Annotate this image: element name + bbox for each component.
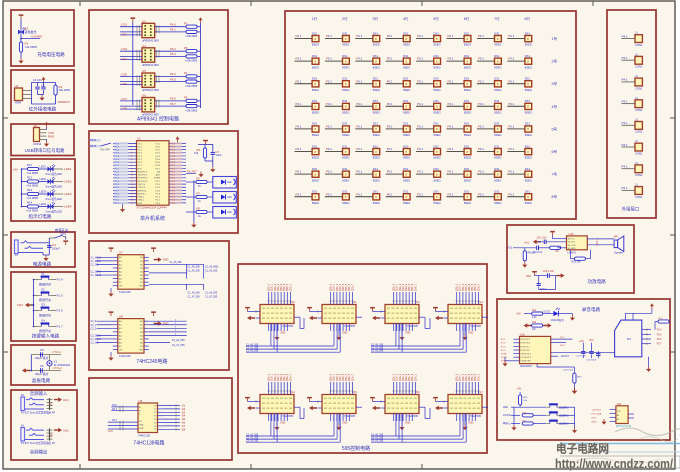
- svg-text:74HC595: 74HC595: [470, 324, 482, 328]
- svg-text:C2_1: C2_1: [91, 324, 97, 327]
- svg-text:74HC595: 74HC595: [282, 414, 294, 418]
- mid vertical wire to gnd: [572, 380, 577, 394]
- svg-text:Q3A_3: Q3A_3: [465, 283, 468, 291]
- svg-text:P1.2: P1.2: [115, 175, 120, 177]
- box M1 AP89341 control: [89, 10, 228, 124]
- input row 1: [525, 236, 567, 244]
- svg-text:Q0A_0: Q0A_0: [330, 283, 333, 291]
- IC U6 AP89341: [142, 94, 159, 117]
- svg-text:-XTAL2: -XTAL2: [52, 366, 62, 370]
- svg-text:OUT+: OUT+: [596, 238, 599, 245]
- connector pins: [23, 90, 32, 92]
- serial link wire: [294, 407, 304, 418]
- box G record circuit: [497, 299, 670, 440]
- svg-text:P2.0: P2.0: [112, 404, 118, 407]
- arrow left: [435, 406, 443, 411]
- top supply row with diode: [516, 308, 575, 322]
- IC U14 74HC595: [260, 390, 295, 418]
- svg-text:P2.7: P2.7: [156, 181, 161, 183]
- svg-text:R14: R14: [27, 201, 33, 205]
- svg-text:P2.3: P2.3: [156, 193, 161, 195]
- ground: [18, 58, 23, 64]
- LED cell row4 col3: [355, 99, 380, 114]
- VCC bar: [550, 231, 555, 236]
- svg-text:CON4: CON4: [33, 142, 42, 146]
- VCC left: [370, 307, 375, 312]
- svg-text:Q5A_5: Q5A_5: [283, 283, 286, 291]
- svg-text:SP1: SP1: [614, 236, 619, 239]
- svg-text:C13 0.1uF: C13 0.1uF: [563, 370, 574, 372]
- port cell 3: [622, 74, 643, 90]
- svg-text:C1_A7_595: C1_A7_595: [205, 295, 218, 298]
- vertical wire: [49, 355, 51, 361]
- ground below: [462, 425, 467, 431]
- svg-text:R7: R7: [184, 71, 188, 75]
- svg-text:-CS8: -CS8: [121, 107, 128, 111]
- svg-text:S2: S2: [41, 288, 45, 292]
- node CHARG: [21, 38, 40, 40]
- pin stubs below: [394, 414, 413, 422]
- LED cell row3 col4: [386, 77, 411, 92]
- svg-text:Q7A_7: Q7A_7: [414, 283, 417, 291]
- box R1 LED array: [285, 11, 576, 219]
- LED cell row3 col8: [507, 77, 532, 92]
- svg-text:Q3A_3: Q3A_3: [277, 283, 280, 291]
- svg-text:GND: GND: [280, 422, 286, 425]
- svg-text:RST: RST: [138, 168, 143, 170]
- port cell 7: [622, 161, 643, 177]
- svg-text:单片机系统: 单片机系统: [140, 215, 165, 222]
- output serial wire right: [356, 316, 362, 318]
- LED cell row8 col6: [447, 190, 472, 205]
- svg-text:DIR: DIR: [139, 350, 143, 352]
- svg-text:74HC245电路: 74HC245电路: [136, 358, 167, 365]
- arrow left: [309, 406, 317, 411]
- svg-text:G2B: G2B: [139, 428, 144, 430]
- IC U4 AP89341: [142, 44, 159, 67]
- bottom bus wires: [246, 414, 340, 443]
- svg-text:P5.7: P5.7: [657, 344, 662, 346]
- svg-text:P0.0: P0.0: [171, 168, 176, 170]
- U8 right wires: [149, 319, 187, 347]
- svg-text:30pF 瓷片: 30pF 瓷片: [35, 355, 49, 360]
- serial link wire: [419, 317, 430, 328]
- bias resistor to ground: [522, 248, 536, 268]
- svg-text:R8 10k: R8 10k: [528, 253, 536, 255]
- svg-text:C1 104: C1 104: [33, 78, 42, 82]
- svg-text:PU4 PD1: PU4 PD1: [521, 350, 531, 352]
- svg-text:4行: 4行: [403, 16, 409, 21]
- svg-text:Q0A_0: Q0A_0: [456, 373, 459, 381]
- svg-text:+5V: +5V: [516, 313, 521, 316]
- output serial wire right: [356, 406, 362, 408]
- box L3 USB serial: [11, 124, 74, 156]
- VCC arrow: [46, 128, 48, 130]
- right wires with resistors: [155, 46, 201, 63]
- U7 right nets upper: [149, 264, 219, 278]
- svg-text:AU1: AU1: [525, 241, 530, 244]
- VCC right of IC: [176, 136, 180, 142]
- svg-text:Q4A_4: Q4A_4: [280, 373, 283, 381]
- svg-text:LED4: LED4: [40, 202, 47, 206]
- LED cell row8 col1: [295, 190, 320, 205]
- svg-text:P2.1: P2.1: [112, 408, 118, 411]
- svg-text:5号: 5号: [552, 126, 558, 131]
- svg-text:P5.4: P5.4: [657, 330, 662, 332]
- svg-text:C2_A1_595: C2_A1_595: [371, 346, 384, 349]
- top wire: [31, 354, 61, 356]
- svg-text:Q7A_7: Q7A_7: [351, 373, 354, 381]
- pullup resistor right: [655, 318, 669, 330]
- LED cell row8 col2: [325, 190, 350, 205]
- ground below: [399, 425, 404, 431]
- svg-text:Q5A_5: Q5A_5: [345, 373, 348, 381]
- svg-text:Q4A_4: Q4A_4: [342, 283, 345, 291]
- svg-text:Q0A_0: Q0A_0: [393, 373, 396, 381]
- svg-text:J5: J5: [21, 393, 24, 397]
- wires U19 right: [551, 337, 609, 358]
- wire: [20, 35, 22, 42]
- svg-text:Q2A_2: Q2A_2: [462, 373, 465, 381]
- pin stubs below: [269, 324, 288, 332]
- ground: [46, 139, 48, 141]
- svg-text:2行: 2行: [342, 16, 348, 21]
- VCC right: [199, 17, 203, 23]
- LED cell row3 col1: [295, 77, 320, 92]
- svg-text:Q2A_2: Q2A_2: [399, 283, 402, 291]
- svg-text:C1_A5_8801: C1_A5_8801: [205, 266, 219, 269]
- svg-text:Q6A_6: Q6A_6: [286, 373, 289, 381]
- svg-text:U5: U5: [142, 69, 146, 73]
- svg-text:P5.2: P5.2: [501, 343, 506, 345]
- svg-text:Q1A_1: Q1A_1: [333, 283, 336, 291]
- svg-text:C1_SDA1: C1_SDA1: [91, 271, 102, 274]
- svg-text:U10: U10: [290, 300, 295, 304]
- VCC left: [433, 307, 438, 312]
- pins: [40, 129, 47, 131]
- VCC: [63, 240, 68, 245]
- svg-text:Q4A_4: Q4A_4: [342, 373, 345, 381]
- svg-text:P1.3: P1.3: [138, 153, 143, 155]
- svg-text:Q4A_4: Q4A_4: [280, 283, 283, 291]
- LED cell row6 col1: [295, 144, 320, 159]
- U8 left wires: [91, 320, 113, 344]
- LED cell row2 col1: [295, 54, 320, 69]
- svg-text:USB转串口信号电路: USB转串口信号电路: [25, 147, 65, 154]
- svg-text:按键输入电路: 按键输入电路: [32, 333, 60, 340]
- svg-text:-LED1: -LED1: [64, 167, 72, 171]
- left connection: [30, 355, 32, 371]
- svg-text:10uF: 10uF: [216, 153, 222, 157]
- svg-text:P0.4: P0.4: [171, 156, 176, 158]
- svg-text:1号: 1号: [552, 36, 558, 41]
- arrow left: [372, 406, 380, 411]
- svg-text:5mm蓝色LED: 5mm蓝色LED: [46, 197, 63, 201]
- svg-text:-CS7: -CS7: [121, 97, 128, 101]
- svg-text:C1_A1_595: C1_A1_595: [246, 346, 259, 349]
- capacitor C4: [48, 243, 50, 255]
- pin stubs below: [457, 324, 476, 332]
- svg-text:U3: U3: [142, 19, 146, 23]
- LED cell row5 col5: [416, 122, 441, 137]
- svg-text:C1_RCLK: C1_RCLK: [91, 260, 102, 263]
- MCU pin rows right: [154, 142, 186, 205]
- svg-text:74HC595: 74HC595: [344, 324, 356, 328]
- VCC U8 left: [109, 311, 114, 316]
- svg-text:BYP V+: BYP V+: [568, 238, 576, 240]
- svg-text:-CS2: -CS2: [121, 32, 128, 36]
- box L2 IR receiver: [11, 70, 74, 113]
- svg-text:P5.0: P5.0: [501, 350, 506, 352]
- U9 lower left wires: [108, 419, 138, 433]
- VCC left: [130, 17, 135, 22]
- svg-text:P0.7: P0.7: [171, 165, 176, 167]
- svg-text:C1_A6_595: C1_A6_595: [205, 292, 218, 295]
- svg-text:P5.3: P5.3: [501, 346, 506, 348]
- svg-text:C2_A2_595: C2_A2_595: [371, 350, 384, 353]
- svg-text:C1_A5_595: C1_A5_595: [188, 266, 201, 269]
- svg-text:功放电路: 功放电路: [588, 278, 607, 285]
- svg-text:Q1A_1: Q1A_1: [396, 373, 399, 381]
- LED cell row7 col5: [416, 167, 441, 182]
- svg-text:=1k 0805: =1k 0805: [27, 184, 39, 188]
- left wires: [120, 72, 142, 86]
- LED cell row8 col7: [477, 190, 502, 205]
- svg-text:指示灯电路: 指示灯电路: [29, 213, 52, 220]
- vertical wires to labels: [268, 283, 293, 304]
- mic module VCC arrow: [625, 303, 653, 313]
- svg-text:P1.0: P1.0: [115, 168, 120, 170]
- svg-text:C2_2: C2_2: [91, 327, 97, 330]
- svg-text:uP89341 809: uP89341 809: [142, 39, 159, 43]
- IC U9 74HC138: [138, 399, 163, 438]
- ground left of U19: [502, 357, 513, 366]
- svg-text:-REC: -REC: [503, 407, 509, 409]
- box M3 74HC245: [89, 241, 229, 370]
- svg-text:U19: U19: [520, 332, 525, 336]
- svg-text:C10 0.1uF: C10 0.1uF: [543, 270, 555, 273]
- svg-text:74HC245: 74HC245: [119, 290, 131, 294]
- svg-text:U12: U12: [415, 300, 420, 304]
- LED cell row7 col2: [325, 167, 350, 182]
- svg-text:VCC: VCC: [155, 143, 160, 145]
- svg-text:C2_RCLK: C2_RCLK: [91, 338, 102, 341]
- svg-text:P1.5: P1.5: [138, 159, 143, 161]
- svg-text:Speaker: Speaker: [614, 252, 623, 255]
- svg-text:74HC595: 74HC595: [407, 414, 419, 418]
- svg-text:TXD/P3.1: TXD/P3.1: [138, 175, 148, 177]
- LED cell row6 col8: [507, 144, 532, 159]
- svg-text:晶振电路: 晶振电路: [32, 377, 51, 384]
- net label P4RST: [186, 169, 204, 177]
- bottom bus wires: [371, 414, 466, 443]
- svg-text:LED2: LED2: [40, 177, 47, 181]
- svg-text:5mm蓝色LED: 5mm蓝色LED: [46, 210, 63, 214]
- svg-text:AP89341 控制电路: AP89341 控制电路: [137, 116, 179, 123]
- svg-text:P1.7: P1.7: [115, 165, 120, 167]
- LED cell row1 col3: [355, 31, 380, 46]
- button S1: [33, 272, 63, 287]
- LED cell row2 col3: [355, 54, 380, 69]
- IC U15 74HC595: [322, 390, 357, 418]
- svg-text:P0.3: P0.3: [171, 178, 176, 180]
- LED cell row1 col4: [386, 31, 411, 46]
- svg-text:8号: 8号: [552, 194, 558, 199]
- vertical wires to labels: [330, 373, 355, 394]
- svg-text:GND: GND: [468, 332, 474, 335]
- svg-text:P0.1: P0.1: [171, 171, 176, 173]
- svg-text:P1.4: P1.4: [115, 181, 120, 183]
- svg-text:Q0A_0: Q0A_0: [393, 283, 396, 291]
- svg-text:U17: U17: [478, 390, 483, 394]
- svg-text:P6.6: P6.6: [170, 97, 176, 101]
- svg-text:P0.2: P0.2: [156, 153, 161, 155]
- svg-text:R8: R8: [197, 207, 201, 211]
- svg-text:Q2A_2: Q2A_2: [274, 283, 277, 291]
- resistor R6: [194, 177, 213, 188]
- vertical wires to labels: [330, 283, 355, 304]
- svg-text:7号: 7号: [552, 172, 558, 177]
- LED cell row6 col3: [355, 144, 380, 159]
- svg-text:Q6A_6: Q6A_6: [286, 283, 289, 291]
- wire: [20, 52, 22, 58]
- svg-text:C3_A0_595: C3_A0_595: [246, 433, 259, 436]
- mic module M1: [609, 313, 662, 357]
- IC U3 AP89341: [142, 19, 159, 42]
- LED cell row7 col8: [507, 167, 532, 182]
- svg-text:P1.5: P1.5: [57, 294, 64, 298]
- svg-text:P0.4: P0.4: [171, 181, 176, 183]
- svg-text:P0.7: P0.7: [156, 168, 161, 170]
- svg-text:P0.2: P0.2: [171, 200, 176, 202]
- svg-text:U15: U15: [352, 390, 357, 394]
- ground below: [336, 425, 341, 431]
- svg-text:Q6A_6: Q6A_6: [411, 283, 414, 291]
- vertical wires to labels: [456, 373, 481, 394]
- svg-text:=1k 0805: =1k 0805: [27, 209, 39, 213]
- LED cell row2 col2: [325, 54, 350, 69]
- svg-text:AU1: AU1: [63, 398, 69, 402]
- svg-text:ON-OFF: ON-OFF: [100, 148, 110, 152]
- svg-text:电源电路: 电源电路: [33, 261, 52, 268]
- svg-text:-PLAYL: -PLAYL: [503, 422, 511, 425]
- LED cell row5 col4: [386, 122, 411, 137]
- pin header: [47, 429, 53, 441]
- svg-text:+5V: +5V: [108, 429, 113, 433]
- svg-text:Q4A_4: Q4A_4: [468, 373, 471, 381]
- svg-text:J3: J3: [34, 124, 38, 128]
- svg-text:Q7A_7: Q7A_7: [477, 283, 480, 291]
- svg-text:-PLAYE: -PLAYE: [503, 414, 511, 417]
- svg-text:=10k 0805: =10k 0805: [185, 108, 198, 112]
- reset RC circuit: [194, 140, 222, 173]
- svg-text:GND: GND: [468, 422, 474, 425]
- svg-text:Q3A_3: Q3A_3: [339, 373, 342, 381]
- arrow out: [54, 397, 62, 402]
- svg-text:-CS4: -CS4: [121, 57, 128, 61]
- svg-text:P0.6: P0.6: [156, 165, 161, 167]
- svg-text:P0.6: P0.6: [171, 187, 176, 189]
- svg-text:P4.4: P4.4: [560, 345, 565, 347]
- svg-text:C1_OE: C1_OE: [91, 263, 99, 266]
- svg-text:A1: A1: [49, 402, 53, 406]
- resistor R1: [19, 42, 22, 52]
- svg-text:M1: M1: [627, 337, 631, 341]
- LED cell row4 col7: [477, 99, 502, 114]
- capacitor C5: [41, 352, 43, 356]
- svg-text:C2_0: C2_0: [91, 320, 97, 323]
- VCC U7 right: [151, 247, 156, 252]
- svg-text:P6.5: P6.5: [170, 77, 176, 81]
- vertical wires to labels: [393, 373, 418, 394]
- pin stubs below: [269, 414, 288, 422]
- LED cell row1 col8: [507, 31, 532, 46]
- svg-text:-CS5: -CS5: [121, 72, 128, 76]
- crystal Y1: [47, 361, 52, 366]
- LED cell row8 col5: [416, 190, 441, 205]
- level shifter IC U20: [592, 403, 635, 428]
- box R2 external ports: [607, 10, 656, 218]
- svg-text:按键开关: 按键开关: [39, 281, 51, 286]
- svg-text:U13: U13: [478, 300, 483, 304]
- IC U13 74HC595: [448, 300, 483, 328]
- svg-text:STC15W4K32S4 LQFP44: STC15W4K32S4 LQFP44: [137, 205, 168, 209]
- svg-text:U18: U18: [569, 232, 574, 236]
- svg-text:P0.3: P0.3: [171, 203, 176, 205]
- U8 ground: [108, 355, 113, 361]
- svg-text:=1k 0805: =1k 0805: [27, 171, 39, 175]
- svg-text:P2.4: P2.4: [156, 190, 161, 192]
- svg-text:-S8: -S8: [181, 427, 186, 431]
- svg-text:-LED3: -LED3: [64, 192, 72, 196]
- svg-text:74HC595: 74HC595: [470, 414, 482, 418]
- svg-text:Q5A_5: Q5A_5: [471, 283, 474, 291]
- svg-text:-CHARG: -CHARG: [31, 35, 43, 39]
- arrow left: [435, 316, 443, 321]
- svg-text:P6.0: P6.0: [170, 23, 176, 27]
- left wires: [120, 23, 142, 37]
- port cell 4: [622, 96, 643, 112]
- svg-text:按键开关: 按键开关: [39, 312, 51, 317]
- port cell 1: [622, 31, 643, 47]
- svg-text:PU3 P2.1: PU3 P2.1: [521, 346, 531, 348]
- svg-text:C4_A0_595: C4_A0_595: [371, 433, 384, 436]
- svg-text:XTAL2: XTAL2: [138, 196, 145, 199]
- svg-text:R9: R9: [184, 96, 188, 100]
- MCU pin rows left: [113, 142, 148, 205]
- svg-text:C1_SCLK: C1_SCLK: [91, 256, 102, 259]
- svg-text:595控制电路: 595控制电路: [342, 445, 370, 452]
- svg-text:U8: U8: [119, 314, 123, 318]
- svg-text:Q2A_2: Q2A_2: [399, 373, 402, 381]
- VCC left: [307, 397, 312, 402]
- svg-text:R13: R13: [27, 188, 33, 192]
- LED cell row4 col2: [325, 99, 350, 114]
- svg-text:R12: R12: [27, 176, 33, 180]
- LED cell row4 col4: [386, 99, 411, 114]
- svg-text:-IRM: -IRM: [15, 101, 22, 105]
- LED cell row4 col6: [447, 99, 472, 114]
- svg-text:R3: R3: [184, 22, 188, 26]
- svg-text:P1.6: P1.6: [115, 162, 120, 164]
- svg-text:Q7A_7: Q7A_7: [477, 373, 480, 381]
- svg-text:P0.5: P0.5: [156, 162, 161, 164]
- LED indicator module D3: [213, 192, 237, 204]
- svg-text:C6: C6: [40, 364, 44, 368]
- LED cell row3 col7: [477, 77, 502, 92]
- svg-text:P1.6: P1.6: [115, 187, 120, 189]
- svg-text:P0.6: P0.6: [171, 162, 176, 164]
